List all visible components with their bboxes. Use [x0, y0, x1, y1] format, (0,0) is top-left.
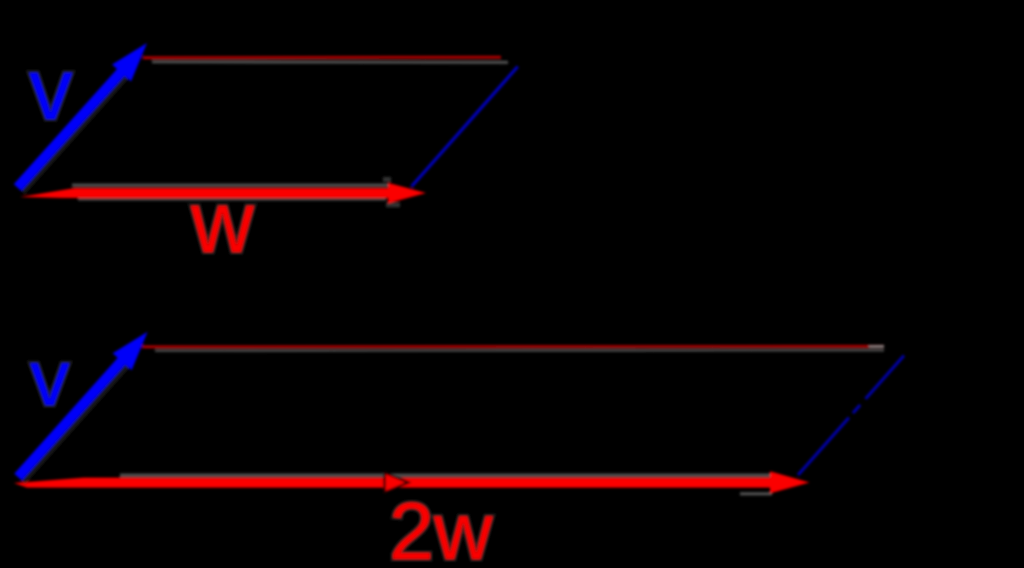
- vector w (thick red arrow): [20, 183, 426, 204]
- node: parallelogram right edge (translated v, thin dark blue): [412, 67, 518, 187]
- node: mid arrowhead marking first w on 2w: [385, 473, 409, 493]
- wire: gray casing below top edge line: [152, 60, 508, 64]
- wire: gray casing below vector w shaft: [78, 198, 386, 201]
- svg-text:v: v: [29, 41, 73, 138]
- node: parallelogram right edge (translated v, thin dark blue, dashed): [798, 356, 904, 476]
- vector v (thick blue arrow): [18, 43, 148, 188]
- wire: gray smudge below w arrowhead back: [386, 202, 400, 207]
- wire: gray smudge above w arrowhead back: [383, 177, 391, 182]
- svg-text:v: v: [30, 333, 70, 422]
- svg-text:2w: 2w: [389, 487, 493, 568]
- wire: faint halo along top vector v: [20, 74, 124, 190]
- wire: gray casing above vector w shaft: [72, 183, 388, 186]
- node: parallelogram top edge (translated w, thin dark red): [143, 56, 501, 60]
- vector v (bottom thick blue arrow): [18, 332, 148, 477]
- node: parallelogram top edge (translated 2w, thin dark red): [143, 345, 885, 348]
- wire: faint halo along bottom vector v: [21, 363, 126, 480]
- wire: gray casing below bottom top-edge line: [155, 349, 884, 352]
- svg-text:w: w: [190, 174, 255, 271]
- wire: gray casing below 2w arrowhead: [740, 492, 772, 495]
- node: light tip at right end of top edge: [869, 345, 884, 348]
- vector 2w (thick red arrow): [14, 471, 810, 493]
- wire: gray casing above vector 2w shaft: [120, 473, 772, 477]
